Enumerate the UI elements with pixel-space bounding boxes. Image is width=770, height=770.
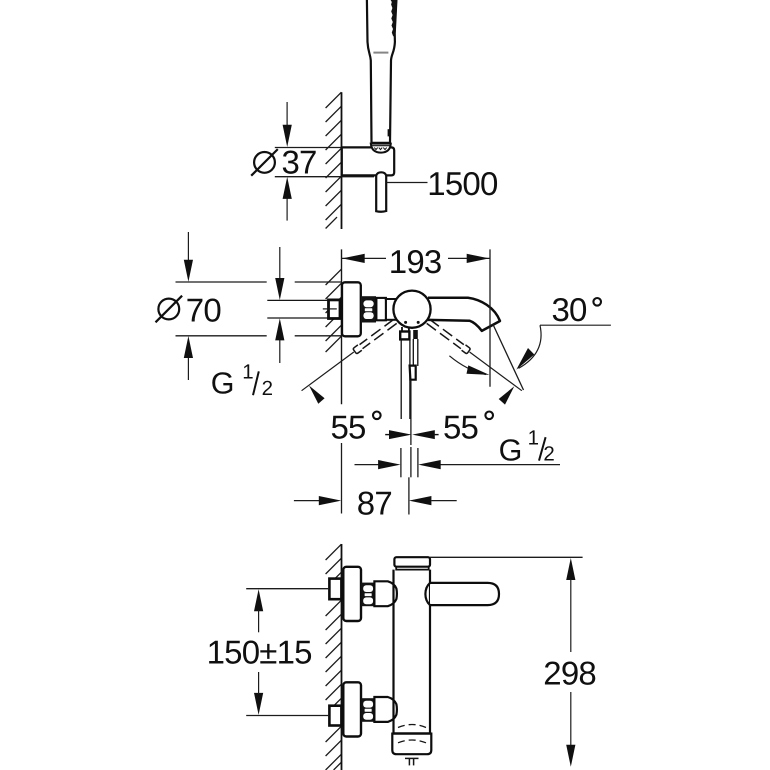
- escutcheon middle: [342, 282, 361, 336]
- supply stub bottom (behind wall): [329, 706, 341, 726]
- wall line bottom: [341, 544, 343, 770]
- dim Ø70 top extension line: [176, 281, 267, 283]
- wall / extension line (193 left, 87 left): [341, 249, 343, 404]
- G 1/2 extension lines: [400, 448, 402, 477]
- svg-text:2: 2: [262, 377, 273, 400]
- shower outlet tube below ball: [400, 327, 410, 419]
- svg-text:193: 193: [389, 243, 442, 280]
- svg-text:70: 70: [186, 292, 222, 329]
- supply pipe to wall union: [267, 299, 327, 301]
- outlet thread marks: [405, 757, 419, 759]
- wall hatching middle: [326, 269, 342, 352]
- dim 150 top extension line: [246, 588, 329, 590]
- wall hatching top: [326, 92, 342, 228]
- dim 193 line and arrows: [342, 257, 387, 259]
- label Ø70: [158, 299, 179, 320]
- svg-text:150±15: 150±15: [207, 634, 312, 671]
- svg-text:55: 55: [443, 409, 478, 446]
- escutcheon bottom: [343, 682, 361, 736]
- connector sleeve: [376, 298, 386, 320]
- svg-text:2: 2: [543, 442, 554, 465]
- extension line right of 193 / 30deg vertical: [489, 249, 491, 386]
- bow-tie arrows at centerline (55 dims): [389, 430, 412, 439]
- hidden dashed arc upper: [398, 725, 426, 728]
- dim Ø37 arrow down: [286, 102, 288, 126]
- handle ghost right (55): [426, 319, 524, 394]
- hand shower handle: [367, 0, 397, 143]
- dim Ø37 bottom extension line: [275, 176, 374, 178]
- svg-text:30: 30: [552, 291, 588, 328]
- body joint line: [392, 732, 431, 735]
- label Ø37: [254, 152, 275, 173]
- handle side button mark: [388, 129, 390, 136]
- dim 150 arrow down: [254, 693, 263, 715]
- arrow 30 on vertical with tail arc: [449, 356, 486, 375]
- shower head spray face (dark band): [391, 0, 398, 37]
- svg-text:87: 87: [357, 484, 392, 521]
- lever handle: [430, 583, 499, 605]
- dim 87: [294, 500, 320, 502]
- wall hatching bottom: [326, 544, 342, 770]
- center line below stem: [410, 380, 412, 445]
- wall bracket: [342, 147, 394, 175]
- wall line top: [341, 92, 343, 229]
- arrow 55 right end: [499, 386, 515, 404]
- concealed union block in wall: [329, 300, 341, 319]
- handle grey separation line: [373, 52, 388, 54]
- shower hose below bracket: [376, 172, 386, 211]
- 30deg leader: [540, 324, 611, 326]
- bottom housing: [392, 734, 431, 755]
- aerator dots: [404, 321, 407, 324]
- union center line: [323, 308, 337, 310]
- dim Ø37 arrow up: [286, 198, 288, 221]
- svg-text:1: 1: [242, 361, 253, 384]
- dim 298 vertical line with arrows: [566, 558, 575, 580]
- handle ghost left (55): [300, 319, 398, 394]
- body cap: [394, 557, 430, 567]
- svg-text:1500: 1500: [427, 165, 498, 202]
- connector + dome bottom: [374, 697, 397, 722]
- mixer ball body: [393, 291, 430, 328]
- hidden dashed arc lower: [398, 740, 426, 743]
- arrow 30 on diagonal: [516, 348, 534, 370]
- dim Ø70 arrow up: [187, 357, 189, 380]
- body collar: [396, 567, 429, 570]
- body sides: [392, 570, 394, 733]
- spout: [428, 298, 500, 331]
- dim Ø70 arrow down: [187, 232, 189, 261]
- arrow 55 left end: [309, 386, 325, 404]
- dim Ø37 top extension line: [275, 147, 342, 149]
- svg-text:37: 37: [282, 144, 317, 181]
- dim 150 bottom extension line: [246, 715, 329, 717]
- svg-text:1: 1: [528, 426, 539, 449]
- hex nut top: [361, 583, 374, 607]
- connector + dome top: [374, 581, 397, 606]
- hex nut middle: [362, 296, 376, 322]
- dim pipe arrow down: [279, 247, 281, 278]
- svg-text:G: G: [499, 433, 523, 467]
- dim pipe arrow up: [279, 340, 281, 363]
- G 1/2 dim arrows: [355, 464, 380, 466]
- 30deg spout axis line: [493, 324, 524, 390]
- dim 150 arrow up: [254, 589, 263, 611]
- svg-text:298: 298: [543, 654, 596, 691]
- dim Ø70 bottom extension line: [176, 335, 267, 337]
- diverter rod and cone: [410, 330, 418, 380]
- dim 298 top extension line: [430, 556, 583, 558]
- handle end cup in bracket: [371, 144, 391, 153]
- leader line 1500: [386, 182, 427, 184]
- svg-text:55: 55: [331, 409, 366, 446]
- neck lines to body: [385, 298, 398, 300]
- hex nut bottom: [361, 698, 374, 722]
- escutcheon top: [343, 567, 361, 621]
- supply stub top (behind wall): [329, 579, 341, 600]
- svg-text:G: G: [211, 366, 235, 400]
